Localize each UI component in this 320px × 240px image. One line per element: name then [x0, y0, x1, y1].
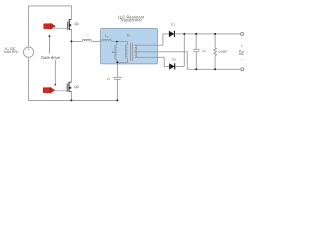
svg-text:Transformer: Transformer	[120, 18, 143, 23]
svg-text:Co: Co	[202, 49, 206, 53]
svg-text:Q2: Q2	[74, 85, 79, 89]
svg-text:D2: D2	[172, 57, 176, 61]
svg-text:T1: T1	[126, 34, 130, 38]
svg-text:D1: D1	[171, 22, 175, 26]
svg-text:DC: DC	[239, 52, 244, 56]
svg-text:Load: Load	[219, 50, 227, 54]
svg-text:Cr: Cr	[107, 77, 110, 81]
svg-text:Lr: Lr	[86, 33, 89, 37]
svg-text:from PFC: from PFC	[4, 50, 19, 54]
svg-text:+: +	[241, 44, 243, 48]
svg-text:Lm: Lm	[112, 50, 116, 54]
svg-text:Gate drive: Gate drive	[41, 55, 61, 60]
svg-text:−: −	[241, 58, 243, 62]
svg-text:Q1: Q1	[74, 22, 79, 26]
